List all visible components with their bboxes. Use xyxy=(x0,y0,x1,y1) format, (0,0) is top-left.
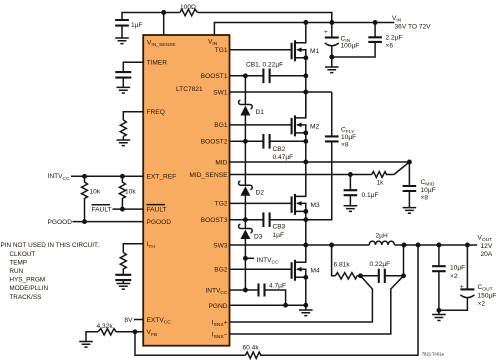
ground below CMID xyxy=(403,208,417,214)
wire SW3 output rail xyxy=(230,244,478,246)
ground below 4.32k xyxy=(79,342,93,348)
svg-text:100Ω: 100Ω xyxy=(180,4,196,11)
svg-text:10k: 10k xyxy=(90,188,101,195)
junction VOUT rail / 0.22uF riser xyxy=(402,243,407,248)
svg-text:4.7µF: 4.7µF xyxy=(269,283,286,290)
wire M2 source down to MID xyxy=(305,133,307,162)
wire BOOST3 line with CB3 xyxy=(230,219,306,221)
wire ISNS+ line xyxy=(230,276,373,322)
capacitor CMID xyxy=(408,162,410,208)
svg-text:M4: M4 xyxy=(311,268,320,275)
junction CIN bottom / 2.2uF return xyxy=(329,55,334,60)
capacitor on TIMER xyxy=(115,72,131,78)
svg-text:RUN: RUN xyxy=(9,268,23,275)
svg-text:0.22µF: 0.22µF xyxy=(370,261,391,268)
capacitor CB2 plates xyxy=(263,134,269,149)
wire sense network drop from rail xyxy=(332,245,336,276)
wire diagonal 1k to MID node xyxy=(394,162,409,175)
svg-text:CB3: CB3 xyxy=(273,224,286,231)
capacitor 4.7uF plates xyxy=(259,284,265,297)
junction CB1 / M1 source line xyxy=(303,73,308,78)
junction FAULT / 10k xyxy=(120,207,125,212)
svg-text:FAULT: FAULT xyxy=(147,207,167,214)
wire BOOST2 line with CB2 xyxy=(230,140,306,142)
svg-text:MID_SENSE: MID_SENSE xyxy=(189,172,228,179)
svg-text:D2: D2 xyxy=(256,189,265,196)
capacitor COUT 150uF x2 electrolytic xyxy=(439,245,475,310)
wire BOOST1 line with CB1 xyxy=(230,75,306,77)
svg-text:8V: 8V xyxy=(124,317,133,324)
junction output cap return / ground xyxy=(436,308,441,313)
svg-text:+: + xyxy=(324,29,328,36)
pin FAULT label (active low, overline) xyxy=(147,205,167,214)
junction EXT_REF / 10k pullup1 xyxy=(82,174,87,179)
capacitor 10uF x2 output xyxy=(438,245,440,310)
diode D3 (schottky, INTVCC to BOOST3) xyxy=(239,220,253,259)
transistor M4 NMOS xyxy=(292,245,306,281)
junction VOUT rail / feedback riser xyxy=(416,243,421,248)
wire TIMER pin to cap xyxy=(123,62,143,72)
capacitor CB3 plates xyxy=(263,212,269,227)
svg-text:×8: ×8 xyxy=(421,195,429,202)
svg-text:36V TO 72V: 36V TO 72V xyxy=(395,24,432,31)
wire SW1 line to CFLY xyxy=(230,91,332,93)
ground below output caps xyxy=(432,310,446,320)
svg-text:10k: 10k xyxy=(125,188,136,195)
ground below TIMER cap xyxy=(117,87,131,93)
capacitor 2.2uF x6 input ceramic xyxy=(332,23,375,58)
junction SW1 / FET chain xyxy=(303,90,308,95)
wire MID line to CMID xyxy=(230,161,410,163)
ground below FREQ resistor xyxy=(117,140,131,146)
node FAULT external label (overline) xyxy=(92,205,112,214)
junction MID / CMID xyxy=(407,160,412,165)
wire TG2 to M3 gate xyxy=(230,202,292,204)
resistor on ITH xyxy=(120,253,126,275)
ground below 1uF xyxy=(115,38,129,44)
svg-text:0.1µF: 0.1µF xyxy=(362,192,379,199)
junction rail corner / CIN xyxy=(329,20,334,25)
svg-text:×2: ×2 xyxy=(450,273,458,280)
wire FAULT line xyxy=(113,208,144,210)
wire BG2 to M4 gate xyxy=(230,268,292,270)
svg-text:PIN NOT USED IN THIS CIRCUIT:: PIN NOT USED IN THIS CIRCUIT: xyxy=(1,242,100,249)
svg-text:TG2: TG2 xyxy=(215,201,228,208)
resistor 6.81k xyxy=(335,273,357,279)
junction BOOST1 / D1 cathode xyxy=(243,73,248,78)
svg-text:SW1: SW1 xyxy=(213,89,228,96)
junction EXT_REF / 10k pullup2 xyxy=(120,174,125,179)
junction 2.2uF / VIN line xyxy=(373,20,378,25)
capacitor CB1 0.22uF plates xyxy=(263,69,269,84)
node INTVCC stub on D3 anode xyxy=(243,256,279,266)
svg-text:100µF: 100µF xyxy=(341,43,360,50)
capacitor 0.1uF on MID_SENSE xyxy=(349,175,351,206)
wire VIN pin riser and VIN line xyxy=(214,23,394,36)
wire BG1 to M2 gate xyxy=(230,124,292,126)
junction M2 source xyxy=(303,130,308,135)
wire TG1 to M1 gate xyxy=(230,49,292,51)
transistor M1 NMOS xyxy=(292,23,306,62)
junction MID_SENSE / 0.1uF xyxy=(348,172,353,177)
svg-text:TG1: TG1 xyxy=(215,47,228,54)
junction VFB / feedback drop xyxy=(133,329,138,334)
capacitor CIN 100uF electrolytic xyxy=(324,23,339,58)
svg-text:PGOOD: PGOOD xyxy=(147,219,172,226)
capacitor 0.22uF sense plates xyxy=(379,269,385,283)
resistor on FREQ xyxy=(120,120,126,136)
svg-text:TRACK/SS: TRACK/SS xyxy=(9,294,41,301)
junction CB3 / SW3 drop xyxy=(303,217,308,222)
wire VIN_SENSE pin drop xyxy=(163,13,165,36)
svg-text:×6: ×6 xyxy=(386,42,394,49)
junction PGOOD / 10k xyxy=(82,219,87,224)
diode D1 (schottky, BOOST2 to BOOST1) xyxy=(239,76,253,142)
wire FREQ resistor to ground xyxy=(122,137,124,141)
resistor 1k (horizontal) xyxy=(372,172,394,178)
svg-text:M3: M3 xyxy=(311,202,320,209)
svg-text:TEMP: TEMP xyxy=(9,259,27,266)
wire M4 source down to PGND xyxy=(305,277,307,305)
svg-text:+: + xyxy=(460,283,464,290)
wire FREQ pin to resistor xyxy=(123,112,143,120)
junction M1 source xyxy=(303,55,308,60)
wire top rail from 1uF cap to VIN corner xyxy=(122,13,332,23)
svg-text:10µF: 10µF xyxy=(450,265,465,272)
svg-text:0.47µF: 0.47µF xyxy=(273,154,294,161)
junction CB2 / M2 source line xyxy=(303,139,308,144)
capacitor 1uF at VIN_SENSE xyxy=(115,20,129,38)
wire ISNS- line xyxy=(230,276,404,334)
capacitor CFLY between SW1 and SW3 xyxy=(306,92,339,220)
ground below ITH network xyxy=(117,284,131,290)
svg-text:60.4k: 60.4k xyxy=(243,345,260,352)
wire PGND line xyxy=(230,304,306,306)
junction VIN_SENSE / rail xyxy=(161,10,166,15)
junction PGND / M4 source xyxy=(303,303,308,308)
resistor 10k (FAULT pullup) xyxy=(119,176,125,209)
wire PGOOD line xyxy=(73,221,144,223)
junction 6.81k / 0.22uF / ISNS+ xyxy=(358,273,363,278)
junction MID / FET chain xyxy=(303,160,308,165)
inductor L 2uH xyxy=(369,241,394,245)
svg-text:SW3: SW3 xyxy=(213,242,228,249)
svg-text:1k: 1k xyxy=(377,179,385,186)
resistor R 100 ohm (inline top rail) xyxy=(180,9,198,15)
svg-text:150µF: 150µF xyxy=(478,293,497,300)
diode D2 (schottky, BOOST3 to BOOST2) xyxy=(239,141,253,219)
wire D3 anode down to INTVCC pin line xyxy=(244,258,246,290)
svg-text:BOOST3: BOOST3 xyxy=(201,217,228,224)
wire M3 source down to SW3 xyxy=(305,211,307,245)
junction VOUT rail / 10uF xyxy=(436,243,441,248)
ground below CIN xyxy=(325,57,339,73)
wire feedback bottom run VFB to VOUT xyxy=(135,245,418,355)
resistor 4.32k xyxy=(98,329,116,335)
resistor 10k (PGOOD pullup) xyxy=(82,176,88,221)
wire ITH pin to RC xyxy=(123,244,143,253)
svg-text:7821 TA01a: 7821 TA01a xyxy=(422,352,445,357)
IC U1 LTC7821 controller body xyxy=(143,35,229,346)
junction BOOST3 / D2 anode / D3 cathode xyxy=(243,217,248,222)
svg-text:2.2µF: 2.2µF xyxy=(386,35,403,42)
wire VFB line with 4.32k xyxy=(86,332,143,342)
svg-text:BOOST2: BOOST2 xyxy=(201,139,228,146)
junction INTVCC / D3 vertical xyxy=(243,288,248,293)
svg-text:6.81k: 6.81k xyxy=(334,262,351,269)
capacitor on ITH xyxy=(115,275,131,280)
junction BOOST2 / D1 anode / D2 cathode xyxy=(243,139,248,144)
junction PGND / 4.7uF return xyxy=(283,303,288,308)
junction M3 source xyxy=(303,209,308,214)
svg-text:D1: D1 xyxy=(256,109,265,116)
svg-text:10µF: 10µF xyxy=(421,187,436,194)
svg-text:D3: D3 xyxy=(254,234,263,241)
svg-text:10µF: 10µF xyxy=(341,134,356,141)
svg-text:12V: 12V xyxy=(481,243,493,250)
svg-text:TIMER: TIMER xyxy=(147,60,168,67)
svg-text:1µF: 1µF xyxy=(131,22,143,29)
wire EXTVCC stub xyxy=(134,319,143,321)
svg-text:BOOST1: BOOST1 xyxy=(201,73,228,80)
wire INTVCC pin line with 4.7uF xyxy=(230,290,286,305)
svg-text:M1: M1 xyxy=(310,48,319,55)
svg-text:4.32k: 4.32k xyxy=(97,323,114,330)
transistor M3 NMOS xyxy=(292,162,306,215)
resistor 60.4k xyxy=(245,352,261,358)
transistor M2 NMOS xyxy=(292,92,306,136)
svg-text:LTC7821: LTC7821 xyxy=(176,86,203,93)
svg-text:×8: ×8 xyxy=(341,141,349,148)
junction SW3 / sense resistor drop xyxy=(329,243,334,248)
svg-text:20A: 20A xyxy=(481,251,493,258)
svg-text:EXT_REF: EXT_REF xyxy=(147,174,177,181)
svg-text:MODE/PLLIN: MODE/PLLIN xyxy=(9,285,48,292)
svg-text:CLKOUT: CLKOUT xyxy=(9,251,35,258)
svg-text:FAULT: FAULT xyxy=(92,207,112,214)
svg-text:1µF: 1µF xyxy=(273,232,285,239)
svg-text:MID: MID xyxy=(215,159,227,166)
svg-text:BG1: BG1 xyxy=(214,122,228,129)
note unused pins list xyxy=(1,242,100,301)
wire MID_SENSE line xyxy=(230,174,372,176)
svg-text:×2: ×2 xyxy=(478,301,486,308)
ground below 0.1uF xyxy=(344,206,358,212)
svg-text:PGOOD: PGOOD xyxy=(48,219,73,226)
svg-text:FREQ: FREQ xyxy=(147,109,165,116)
svg-text:BG2: BG2 xyxy=(214,267,228,274)
wire 6.81k to 0.22uF xyxy=(357,245,404,276)
wire ITH cap to ground xyxy=(122,280,124,283)
wire TIMER cap to ground xyxy=(122,78,124,88)
svg-text:2µH: 2µH xyxy=(376,232,388,239)
junction M1 drain / VIN line xyxy=(303,20,308,25)
wire M1 source down to SW1 xyxy=(305,58,307,119)
svg-text:CB2: CB2 xyxy=(273,146,286,153)
ground at PGND xyxy=(299,305,313,315)
svg-text:PGND: PGND xyxy=(208,303,227,310)
junction M4 source xyxy=(303,275,308,280)
junction VOUT rail / COUT xyxy=(465,243,470,248)
svg-text:HYS_PRGM: HYS_PRGM xyxy=(9,277,45,284)
junction 0.22uF right / rail riser / ISNS- xyxy=(401,273,406,278)
junction SW3 / FET chain xyxy=(303,243,308,248)
wire EXT_REF line xyxy=(71,175,143,177)
svg-text:CB1, 0.22µF: CB1, 0.22µF xyxy=(246,61,283,68)
svg-text:M2: M2 xyxy=(310,123,319,130)
